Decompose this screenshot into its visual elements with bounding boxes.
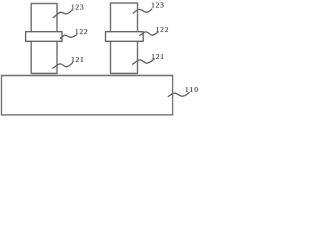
- svg-text:123: 123: [151, 1, 165, 10]
- leader line 110: [168, 92, 190, 97]
- svg-text:122: 122: [156, 25, 170, 34]
- right pillar bottom edge: [111, 72, 138, 74]
- leader line right 121: [132, 59, 154, 65]
- base substrate 110: [2, 75, 173, 115]
- svg-text:110: 110: [185, 85, 199, 94]
- left pillar (sections 121 and 123): [31, 4, 57, 74]
- base top edge line: [2, 75, 173, 77]
- leader line left 121: [52, 62, 73, 68]
- leader line right 123: [133, 9, 152, 14]
- leader line left 122: [60, 35, 77, 39]
- left pillar bottom edge: [31, 72, 57, 74]
- svg-text:122: 122: [75, 27, 89, 36]
- svg-text:121: 121: [151, 52, 165, 61]
- svg-text:121: 121: [71, 55, 85, 64]
- right band 122: [106, 32, 144, 42]
- right pillar (sections 121 and 123): [111, 3, 138, 74]
- left band 122: [26, 32, 62, 42]
- leader line left 123: [53, 10, 73, 18]
- svg-text:123: 123: [71, 3, 85, 12]
- leader line right 122: [139, 32, 158, 36]
